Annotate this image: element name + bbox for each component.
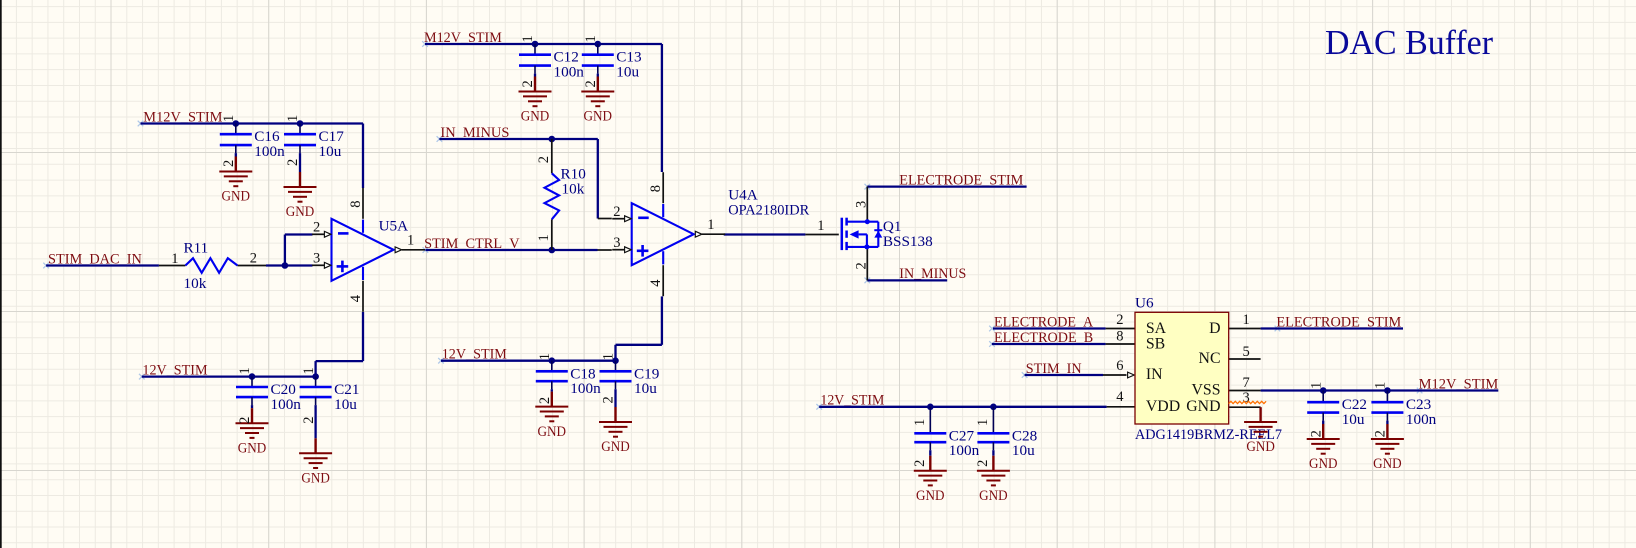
svg-text:U6: U6 xyxy=(1135,295,1154,312)
svg-text:1: 1 xyxy=(912,419,928,426)
svg-text:2: 2 xyxy=(313,220,320,236)
svg-text:1: 1 xyxy=(707,217,714,233)
svg-text:4: 4 xyxy=(348,294,364,302)
svg-text:2: 2 xyxy=(601,396,617,403)
svg-text:2: 2 xyxy=(1308,430,1324,437)
svg-text:GND: GND xyxy=(1186,398,1220,415)
svg-text:1: 1 xyxy=(1308,382,1324,389)
svg-text:10u: 10u xyxy=(616,64,639,81)
svg-text:1: 1 xyxy=(536,234,552,241)
svg-text:GND: GND xyxy=(1246,438,1275,455)
svg-text:IN: IN xyxy=(1146,366,1163,383)
svg-text:D: D xyxy=(1209,320,1220,337)
svg-text:1: 1 xyxy=(583,35,599,42)
svg-text:2: 2 xyxy=(583,80,599,87)
svg-text:1: 1 xyxy=(520,35,536,42)
svg-text:SB: SB xyxy=(1146,335,1165,352)
svg-text:1: 1 xyxy=(601,353,617,360)
svg-text:3: 3 xyxy=(854,201,870,208)
svg-text:6: 6 xyxy=(1116,358,1123,374)
svg-text:10k: 10k xyxy=(562,181,585,198)
svg-text:2: 2 xyxy=(520,80,536,87)
svg-text:1: 1 xyxy=(817,218,824,234)
svg-text:10u: 10u xyxy=(1012,442,1035,459)
svg-text:1: 1 xyxy=(407,233,414,249)
svg-text:100n: 100n xyxy=(949,442,980,459)
svg-text:BSS138: BSS138 xyxy=(883,233,933,250)
svg-text:2: 2 xyxy=(537,397,553,404)
svg-text:GND: GND xyxy=(1373,455,1402,472)
svg-text:1: 1 xyxy=(301,367,317,374)
svg-text:100n: 100n xyxy=(254,143,285,160)
svg-text:8: 8 xyxy=(648,185,664,192)
svg-text:100n: 100n xyxy=(570,380,601,397)
svg-text:10u: 10u xyxy=(634,380,657,397)
svg-text:2: 2 xyxy=(301,417,317,424)
svg-text:100n: 100n xyxy=(271,396,302,413)
svg-text:8: 8 xyxy=(1116,328,1123,344)
svg-text:NC: NC xyxy=(1199,350,1221,367)
svg-text:OPA2180IDR: OPA2180IDR xyxy=(728,202,810,219)
svg-text:GND: GND xyxy=(1309,455,1338,472)
svg-text:2: 2 xyxy=(613,204,620,220)
svg-text:2: 2 xyxy=(250,250,257,266)
svg-text:GND: GND xyxy=(601,438,630,455)
svg-text:2: 2 xyxy=(536,156,552,163)
svg-text:2: 2 xyxy=(975,460,991,467)
svg-text:U5A: U5A xyxy=(379,218,409,235)
svg-text:1: 1 xyxy=(221,115,237,122)
svg-text:GND: GND xyxy=(584,108,613,125)
svg-text:2: 2 xyxy=(221,160,237,167)
svg-text:100n: 100n xyxy=(554,64,585,81)
svg-text:1: 1 xyxy=(171,251,178,267)
svg-text:2: 2 xyxy=(854,262,870,269)
svg-text:2: 2 xyxy=(912,460,928,467)
svg-text:DAC Buffer: DAC Buffer xyxy=(1325,23,1493,62)
svg-text:3: 3 xyxy=(613,235,620,251)
svg-text:1: 1 xyxy=(285,115,301,122)
svg-text:GND: GND xyxy=(222,188,251,205)
svg-text:10u: 10u xyxy=(1342,411,1365,428)
svg-text:1: 1 xyxy=(1243,312,1250,328)
svg-text:4: 4 xyxy=(648,279,664,287)
svg-text:1: 1 xyxy=(537,353,553,360)
svg-text:8: 8 xyxy=(348,201,364,208)
svg-text:GND: GND xyxy=(238,439,267,456)
svg-text:7: 7 xyxy=(1243,375,1250,391)
svg-text:4: 4 xyxy=(1116,389,1124,405)
svg-text:VSS: VSS xyxy=(1192,382,1221,399)
svg-text:GND: GND xyxy=(301,470,330,487)
svg-text:2: 2 xyxy=(237,417,253,424)
svg-text:2: 2 xyxy=(1116,312,1123,328)
svg-text:SA: SA xyxy=(1146,320,1167,337)
svg-text:GND: GND xyxy=(979,487,1008,504)
svg-text:GND: GND xyxy=(521,108,550,125)
svg-text:R11: R11 xyxy=(184,240,209,257)
svg-text:5: 5 xyxy=(1243,344,1250,360)
svg-text:1: 1 xyxy=(975,419,991,426)
svg-text:GND: GND xyxy=(286,203,315,220)
svg-text:1: 1 xyxy=(1373,382,1389,389)
svg-text:2: 2 xyxy=(285,159,301,166)
svg-text:10u: 10u xyxy=(319,143,342,160)
svg-text:3: 3 xyxy=(313,251,320,267)
svg-text:GND: GND xyxy=(916,487,945,504)
svg-text:10k: 10k xyxy=(184,275,207,292)
svg-text:1: 1 xyxy=(237,367,253,374)
svg-text:VDD: VDD xyxy=(1146,398,1180,415)
svg-text:10u: 10u xyxy=(334,396,357,413)
svg-text:GND: GND xyxy=(538,423,567,440)
svg-text:2: 2 xyxy=(1373,430,1389,437)
svg-text:100n: 100n xyxy=(1406,411,1437,428)
